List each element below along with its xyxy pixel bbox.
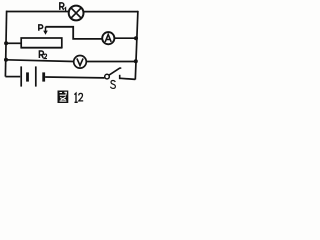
label R1 xyxy=(60,3,66,11)
junction dot right-ammeter xyxy=(134,36,138,40)
wire ammeter to right rail xyxy=(114,37,136,39)
label R2 xyxy=(39,51,47,59)
wire voltmeter to right rail xyxy=(86,61,136,63)
wire top-left segment (battery + to lamp) xyxy=(6,11,69,13)
caption character tu (figure) xyxy=(58,91,69,104)
wire battery to switch xyxy=(45,76,104,79)
voltmeter V xyxy=(74,56,87,69)
rheostat R2 bottom edge emphasis xyxy=(21,47,62,49)
caption number 12 xyxy=(74,93,83,102)
switch S pivot xyxy=(105,74,110,79)
label P xyxy=(39,25,43,31)
wire top-right segment (lamp to right rail) xyxy=(84,11,138,13)
battery cell 1 long plate xyxy=(20,66,22,86)
wire rheostat left lead xyxy=(6,42,21,44)
lamp R1 (bulb circle with X) xyxy=(69,6,84,21)
label S xyxy=(110,81,115,89)
wire left rail xyxy=(5,11,6,77)
junction dot left-voltmeter xyxy=(4,58,8,62)
battery cell 2 long plate xyxy=(35,66,37,86)
wire switch to right corner xyxy=(120,78,135,79)
ammeter A xyxy=(102,32,114,44)
switch S contact xyxy=(119,75,121,79)
battery cell 1 short plate xyxy=(26,72,29,81)
rheostat R2 body xyxy=(21,38,62,48)
junction dot left-rheostat xyxy=(4,41,8,45)
switch S lever xyxy=(109,68,121,75)
battery cell 2 short plate xyxy=(42,72,45,81)
wire voltmeter branch left xyxy=(6,60,74,62)
junction dot right-voltmeter xyxy=(134,59,138,63)
wire slider to ammeter xyxy=(46,27,103,39)
wire battery left lead xyxy=(5,76,20,78)
wire right rail xyxy=(135,11,138,80)
slider P arrow xyxy=(43,27,48,35)
